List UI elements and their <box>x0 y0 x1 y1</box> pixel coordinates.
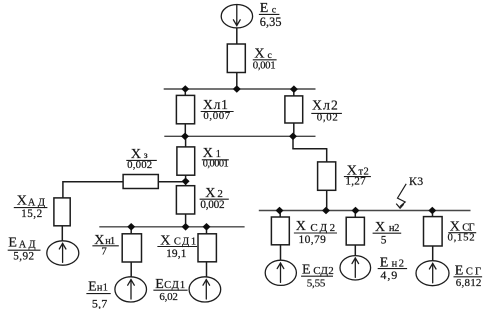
svg-text:5,92: 5,92 <box>13 251 34 263</box>
svg-text:Х: Х <box>296 219 306 234</box>
svg-text:Е: Е <box>8 236 17 251</box>
svg-text:н2: н2 <box>389 223 400 234</box>
svg-text:0,02: 0,02 <box>317 112 338 124</box>
svg-text:10,79: 10,79 <box>299 234 327 246</box>
svg-text:7: 7 <box>101 245 107 257</box>
svg-text:Х: Х <box>17 194 27 209</box>
svg-text:СД2: СД2 <box>313 265 334 277</box>
svg-text:6,812: 6,812 <box>456 277 482 289</box>
svg-text:1,27: 1,27 <box>345 176 366 188</box>
svg-text:5,55: 5,55 <box>307 277 326 289</box>
svg-text:0,0001: 0,0001 <box>203 159 229 170</box>
svg-text:Е: Е <box>88 279 97 294</box>
svg-text:Х: Х <box>160 233 170 248</box>
svg-text:6,35: 6,35 <box>260 15 282 29</box>
svg-text:СД1: СД1 <box>164 280 185 291</box>
svg-text:0,007: 0,007 <box>203 110 230 122</box>
svg-text:0,002: 0,002 <box>200 199 224 211</box>
svg-text:СД1: СД1 <box>174 237 196 248</box>
svg-text:19,1: 19,1 <box>166 248 187 260</box>
svg-text:Е: Е <box>302 262 311 277</box>
svg-text:К3: К3 <box>409 174 423 188</box>
svg-text:0,152: 0,152 <box>448 232 475 244</box>
svg-text:2: 2 <box>217 188 223 200</box>
svg-text:с: с <box>272 4 277 15</box>
svg-text:Хл2: Хл2 <box>312 97 338 112</box>
svg-text:0,002: 0,002 <box>127 159 152 171</box>
svg-text:15,2: 15,2 <box>21 208 42 220</box>
svg-text:Х: Х <box>375 220 385 235</box>
svg-text:н1: н1 <box>97 282 108 293</box>
svg-text:4,9: 4,9 <box>380 268 397 282</box>
svg-text:СД2: СД2 <box>310 222 335 234</box>
svg-text:5: 5 <box>381 234 387 246</box>
svg-text:5,7: 5,7 <box>92 296 107 309</box>
svg-text:6,02: 6,02 <box>159 291 178 303</box>
svg-text:0,001: 0,001 <box>253 59 276 71</box>
